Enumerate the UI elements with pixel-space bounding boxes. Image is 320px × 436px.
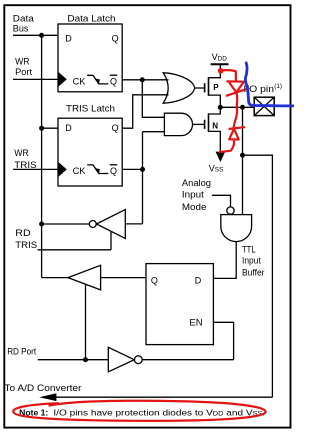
annotation red diode D1 tail	[234, 93, 238, 128]
wire TRIS Q to OR bottom input	[122, 95, 168, 128]
data latch CK wedge	[58, 72, 67, 87]
wire RD TRIS	[38, 249, 112, 251]
svg-text:Port: Port	[15, 67, 33, 77]
analog mode bubble	[227, 207, 234, 214]
junction dot drain left	[218, 105, 223, 110]
svg-text:D: D	[65, 123, 72, 133]
svg-text:D: D	[65, 33, 72, 43]
svg-text:TRIS: TRIS	[15, 240, 37, 250]
svg-text:Buffer: Buffer	[242, 268, 265, 278]
svg-text:N: N	[212, 122, 218, 131]
wire analog input mode	[212, 195, 231, 207]
transistor Q2 N channel	[208, 113, 210, 132]
wire U3 input	[125, 223, 142, 225]
wire WR TRIS	[13, 168, 58, 170]
data latch CK arrowhead	[94, 78, 100, 85]
svg-text:TRIS: TRIS	[14, 160, 36, 170]
wire U3 enable from RD TRIS	[110, 232, 112, 250]
junction dot data Qbar	[140, 77, 145, 82]
wire RD Port	[38, 359, 109, 361]
tri-state buffer U3 bubble	[89, 221, 96, 228]
svg-text:Mode: Mode	[182, 202, 207, 212]
VDD rail	[211, 63, 229, 65]
wire U5 output to bus	[42, 277, 68, 279]
junction dot TRIS D	[39, 126, 44, 131]
junction dot RD Port	[83, 357, 88, 362]
junction dot bus top	[39, 33, 44, 38]
A/D converter arrowhead	[39, 393, 56, 401]
svg-text:Q: Q	[110, 166, 117, 176]
transistor Q2 N leads	[209, 107, 221, 152]
junction dot TRIS Qbar	[140, 167, 145, 172]
transistor Q1 P leads	[209, 65, 221, 108]
wire TTL buffer output to latch D	[214, 242, 237, 279]
inverter U6 bubble	[134, 356, 142, 364]
svg-text:EN: EN	[189, 318, 202, 328]
svg-text:Bus: Bus	[13, 23, 29, 33]
svg-text:RD: RD	[15, 228, 31, 238]
tri-state buffer U5 triangle	[68, 265, 101, 290]
data latch box U1	[58, 24, 122, 92]
TTL input buffer G3	[221, 215, 252, 242]
wire data latch Qbar out	[122, 79, 168, 81]
VSS arrow	[216, 152, 226, 162]
svg-text:Q: Q	[110, 76, 117, 86]
svg-text:Q: Q	[112, 123, 119, 133]
data latch CK symbol	[87, 75, 108, 84]
svg-text:CK: CK	[73, 166, 86, 176]
annotation red diode D1 to VDD	[221, 70, 236, 81]
wire drain node to pin	[220, 106, 254, 108]
wire inverter output to EN	[142, 359, 233, 361]
svg-text:Input: Input	[182, 189, 205, 199]
transistor Q1 P channel	[208, 77, 210, 96]
wire to A/D converter	[54, 396, 272, 398]
junction dot pin branch	[240, 105, 245, 110]
svg-text:D: D	[195, 275, 202, 285]
svg-text:VDD: VDD	[212, 52, 228, 62]
transistor Q2 N gate bar	[204, 120, 206, 129]
wire AND output to N gate	[193, 123, 204, 125]
wire AND bottom input vertical	[143, 132, 165, 224]
TRIS latch box U2	[58, 118, 122, 186]
junction dot RD TRIS bus	[39, 222, 44, 227]
annotation red oval around note	[13, 401, 265, 421]
svg-text:Data Latch: Data Latch	[67, 13, 115, 23]
AND gate G2	[164, 113, 192, 135]
TRIS latch CK arrowhead	[94, 168, 100, 175]
annotation blue pen stroke	[245, 63, 294, 106]
svg-text:To A/D Converter: To A/D Converter	[4, 383, 81, 393]
wire TRIS latch D input	[42, 127, 58, 129]
svg-text:WR: WR	[15, 56, 30, 66]
svg-text:Input: Input	[242, 256, 261, 266]
I/O pin box X	[254, 97, 274, 115]
wire pin to A/D vertical	[243, 155, 273, 397]
wire data bus to data latch D	[13, 34, 58, 36]
wire data bus vertical	[41, 35, 43, 277]
wire U5 enable	[85, 284, 87, 359]
wire RD TRIS buffer output to bus	[42, 223, 90, 225]
wire TRIS Qbar out	[122, 168, 142, 170]
wire Qbar branch down to AND top input	[142, 80, 164, 118]
wire OR output to P gate	[195, 87, 204, 89]
inverter U6 triangle	[108, 347, 134, 372]
svg-text:WR: WR	[14, 148, 29, 158]
svg-text:TRIS Latch: TRIS Latch	[66, 104, 115, 114]
wire latch Q to buffer U5	[101, 277, 146, 279]
wire pin branch down to TTL buffer	[242, 107, 244, 214]
svg-text:Analog: Analog	[182, 178, 211, 188]
latch U4 box	[146, 264, 213, 345]
data latch Qbar overline	[110, 74, 117, 76]
svg-text:Q: Q	[151, 275, 158, 285]
annotation red diode D2 to VSS	[230, 127, 245, 129]
svg-text:Q: Q	[112, 33, 119, 43]
transistor Q1 P gate bar	[204, 83, 206, 92]
svg-text:VSS: VSS	[209, 163, 224, 173]
svg-text:(1): (1)	[274, 83, 282, 90]
wire WR Port	[13, 78, 58, 80]
svg-text:TTL: TTL	[242, 245, 256, 255]
svg-text:RD Port: RD Port	[7, 346, 36, 356]
OR gate G1	[163, 73, 195, 103]
wire latch EN	[214, 322, 234, 359]
I/O pin box	[254, 97, 274, 115]
svg-text:I/O pins have protection diode: I/O pins have protection diodes to VDD a…	[53, 409, 265, 418]
TRIS latch CK symbol	[87, 165, 108, 174]
annotation red dot at VDD	[218, 68, 224, 74]
svg-text:CK: CK	[73, 76, 86, 86]
svg-text:Data: Data	[13, 14, 34, 24]
svg-text:P: P	[213, 83, 219, 92]
tri-state buffer U3 triangle	[96, 210, 125, 239]
junction dot pin AD	[240, 153, 245, 158]
TRIS latch Qbar overline	[110, 164, 117, 166]
TRIS latch CK wedge	[58, 162, 67, 177]
